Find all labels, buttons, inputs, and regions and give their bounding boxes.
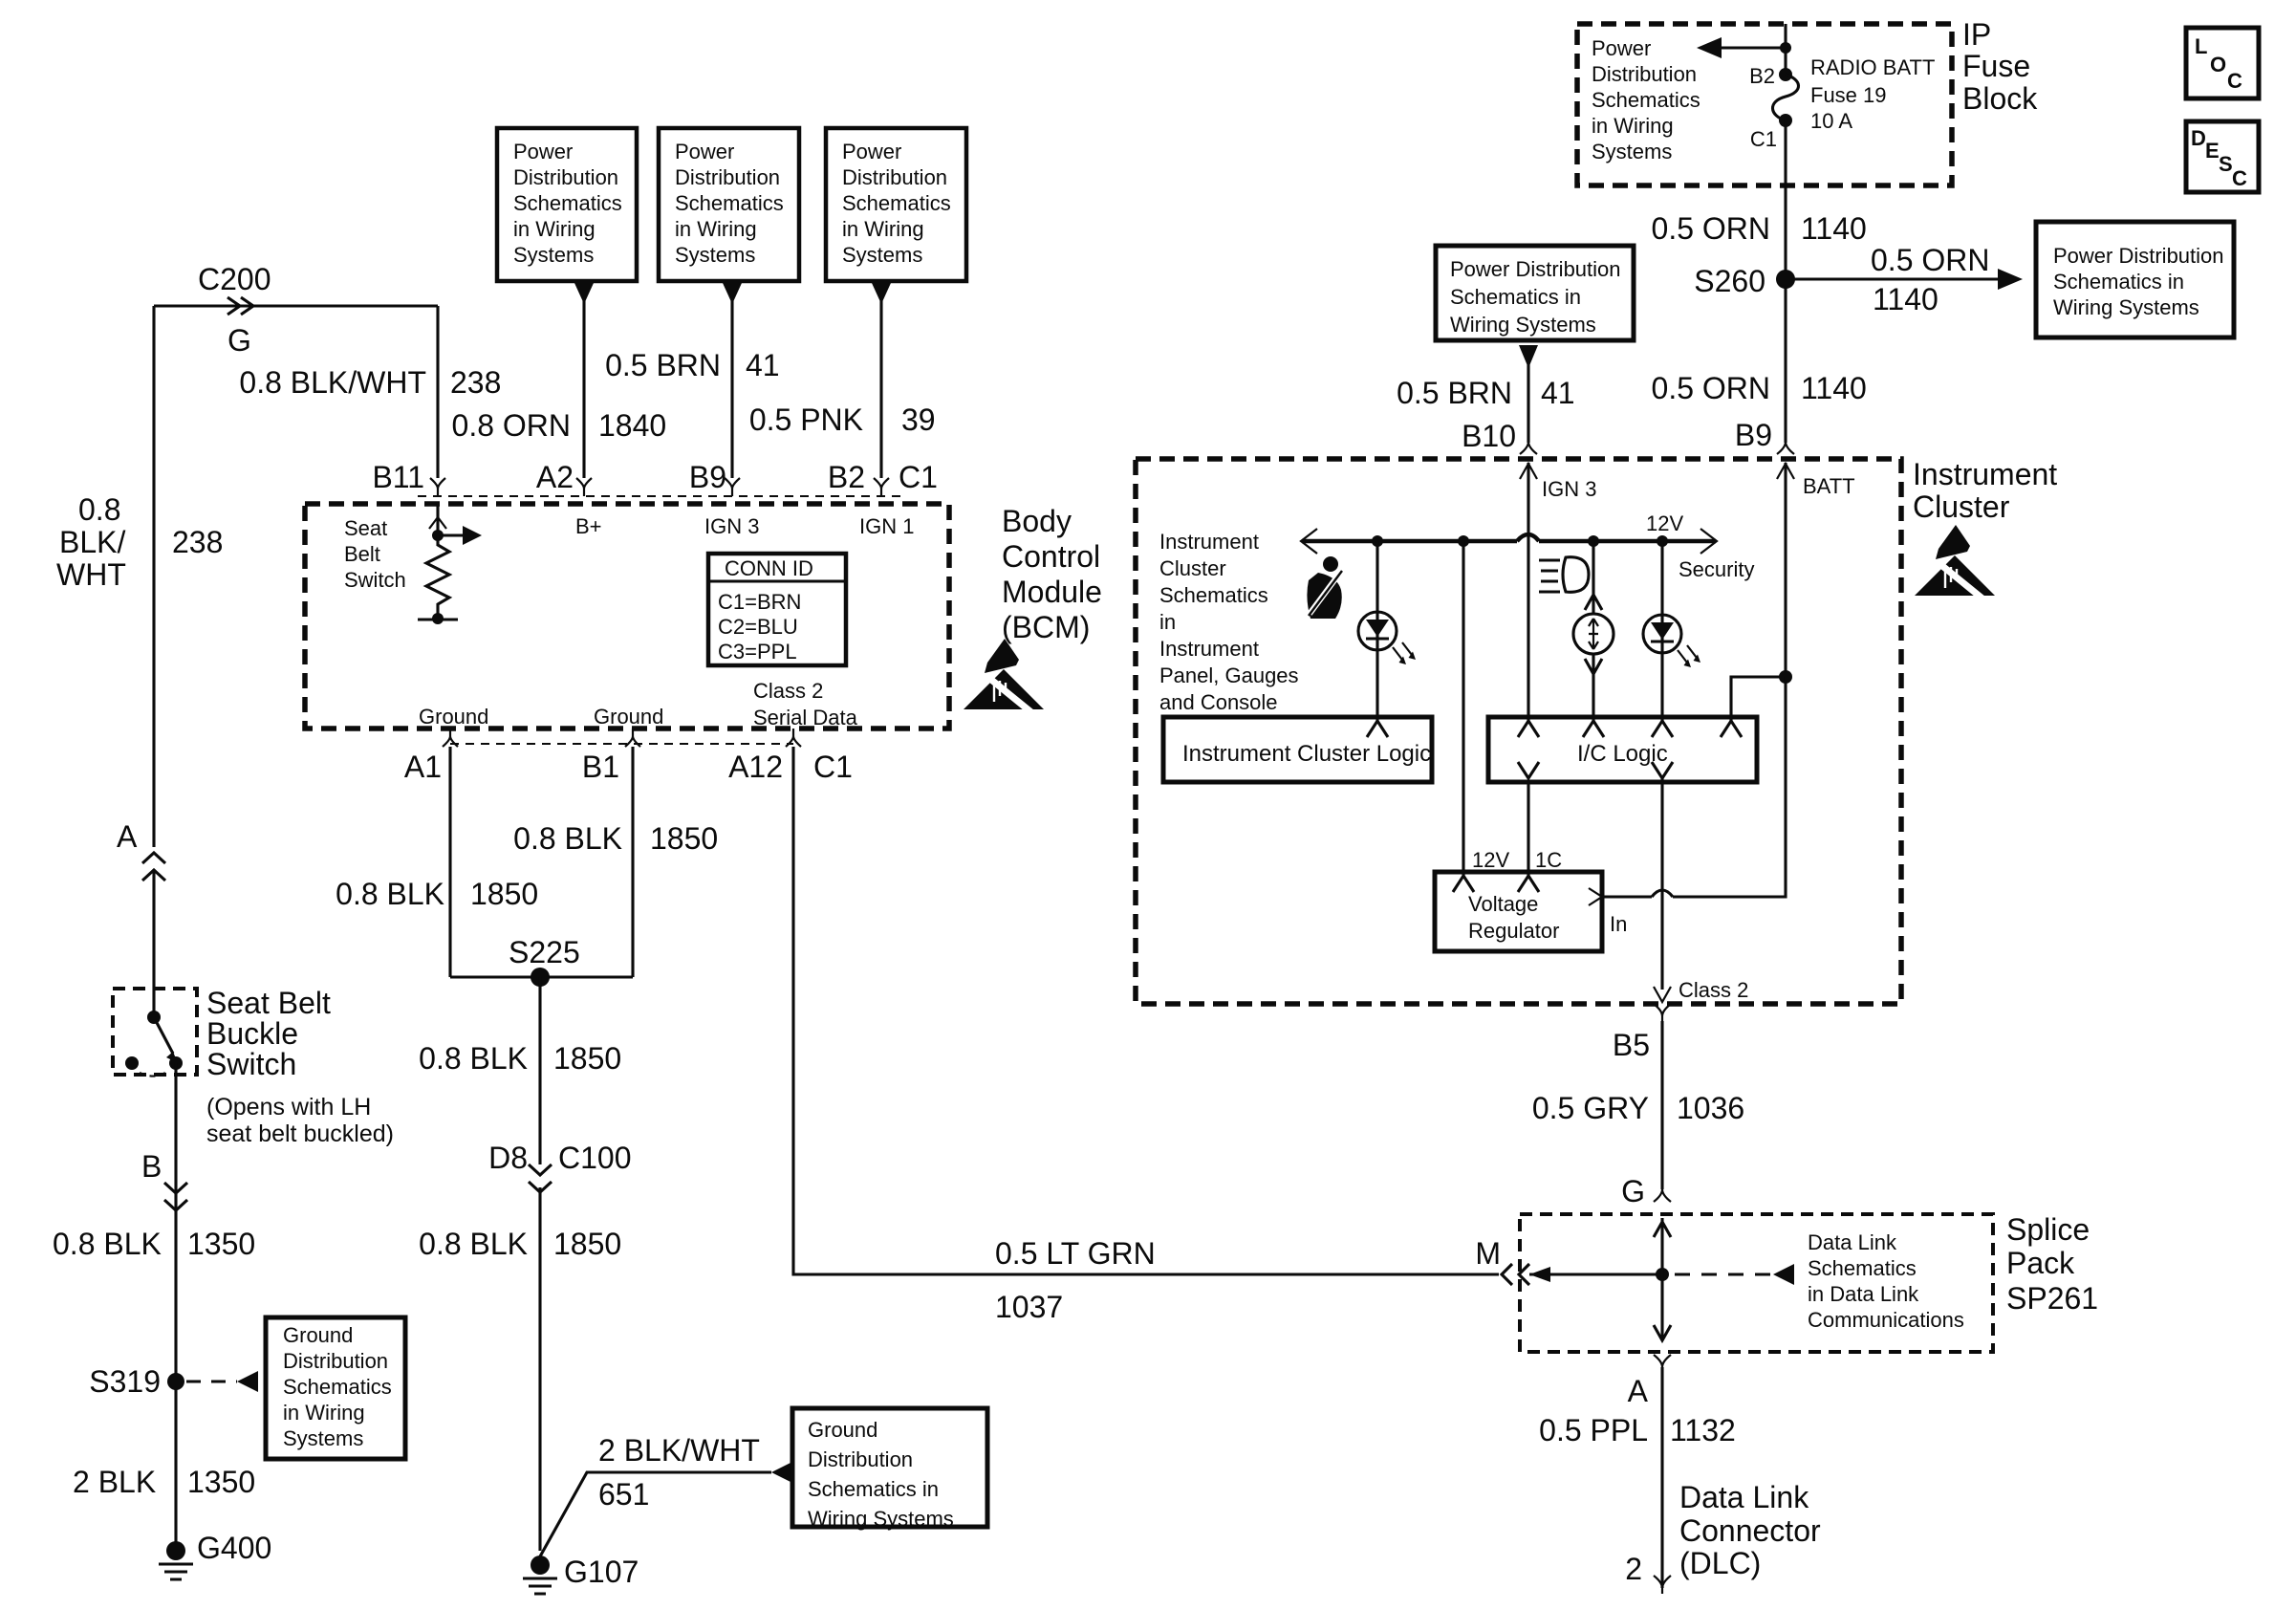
svg-text:A: A bbox=[117, 819, 138, 854]
svg-text:Distribution: Distribution bbox=[1592, 62, 1697, 86]
box power distribution schematics 3 bbox=[826, 128, 966, 281]
connector forks at BCM bottom bbox=[443, 729, 801, 747]
bus hop over IGN3 wire bbox=[1517, 534, 1539, 541]
wire I/C logic to voltage regulator 1C bbox=[1527, 782, 1529, 876]
svg-text:in Data Link: in Data Link bbox=[1808, 1282, 1919, 1306]
svg-text:C1: C1 bbox=[813, 750, 853, 784]
svg-text:Data Link: Data Link bbox=[1808, 1230, 1897, 1254]
switch arm bbox=[154, 1017, 173, 1054]
wire security LED branch bbox=[1660, 541, 1663, 721]
ESD symbol BCM bbox=[964, 639, 1044, 721]
svg-text:1037: 1037 bbox=[995, 1290, 1063, 1324]
svg-text:C2=BLU: C2=BLU bbox=[718, 615, 798, 639]
svg-text:0.8 BLK: 0.8 BLK bbox=[336, 877, 444, 911]
svg-text:I/C Logic: I/C Logic bbox=[1577, 741, 1668, 767]
svg-text:IP: IP bbox=[1962, 17, 1991, 52]
connector forks at BCM top bbox=[430, 478, 889, 496]
svg-text:Distribution: Distribution bbox=[513, 165, 618, 189]
arrow to data link reference bbox=[1773, 1264, 1794, 1285]
svg-text:G: G bbox=[1621, 1174, 1645, 1208]
wire IGN3 to I/C logic bbox=[1527, 541, 1529, 721]
svg-text:Fuse: Fuse bbox=[1962, 49, 2030, 83]
svg-text:in Wiring: in Wiring bbox=[513, 217, 596, 241]
forks into I/C logic bbox=[1518, 721, 1742, 737]
svg-text:Belt: Belt bbox=[344, 542, 380, 566]
wire B9 0.5 BRN 41 bbox=[730, 298, 733, 478]
svg-text:Switch: Switch bbox=[344, 568, 406, 592]
fork below instrument cluster bbox=[1654, 1004, 1671, 1021]
wire A1 ground leg bbox=[448, 747, 451, 977]
svg-text:Buckle: Buckle bbox=[206, 1016, 298, 1051]
wire dashed reference from S319 bbox=[186, 1380, 237, 1382]
svg-text:Switch: Switch bbox=[206, 1047, 296, 1081]
svg-text:Panel, Gauges: Panel, Gauges bbox=[1159, 664, 1299, 687]
svg-text:12V: 12V bbox=[1646, 511, 1683, 535]
svg-text:A12: A12 bbox=[728, 750, 783, 784]
wire 0.5 LT GRN 1037 serial data run bbox=[793, 747, 1499, 1274]
svg-text:0.8: 0.8 bbox=[78, 492, 120, 527]
switch pivot bbox=[147, 1011, 161, 1024]
splice pack dashed border bbox=[1520, 1214, 1993, 1352]
svg-text:B: B bbox=[141, 1149, 162, 1184]
svg-text:CONN ID: CONN ID bbox=[725, 556, 813, 580]
junction 12V rail to voltage regulator bbox=[1458, 535, 1469, 547]
wire S260 branch to power distribution bbox=[1786, 277, 1998, 280]
wire A to DLC bbox=[1660, 1367, 1663, 1588]
wire 238 down to B11 bbox=[436, 306, 439, 478]
svg-text:Ground: Ground bbox=[419, 705, 488, 729]
svg-text:0.5 LT GRN: 0.5 LT GRN bbox=[995, 1236, 1156, 1271]
svg-text:2 BLK/WHT: 2 BLK/WHT bbox=[598, 1433, 760, 1468]
svg-text:0.5 BRN: 0.5 BRN bbox=[1397, 376, 1512, 410]
svg-text:39: 39 bbox=[901, 402, 936, 437]
wire arrow to power distribution bbox=[1721, 46, 1786, 49]
svg-text:C1: C1 bbox=[899, 460, 938, 494]
svg-text:Control: Control bbox=[1002, 539, 1100, 574]
svg-text:Fuse 19: Fuse 19 bbox=[1810, 83, 1887, 107]
svg-text:G: G bbox=[227, 323, 251, 358]
splice S319 bbox=[167, 1373, 184, 1390]
svg-text:1350: 1350 bbox=[187, 1227, 255, 1261]
svg-text:Schematics: Schematics bbox=[1592, 88, 1700, 112]
svg-text:(BCM): (BCM) bbox=[1002, 610, 1090, 644]
box voltage regulator bbox=[1435, 872, 1602, 951]
svg-text:Class 2: Class 2 bbox=[753, 679, 823, 703]
svg-text:D8: D8 bbox=[488, 1141, 528, 1175]
svg-text:Schematics: Schematics bbox=[842, 191, 951, 215]
forks into voltage regulator bbox=[1453, 876, 1539, 892]
svg-text:Schematics: Schematics bbox=[675, 191, 784, 215]
svg-text:S260: S260 bbox=[1694, 264, 1765, 298]
svg-text:BLK/: BLK/ bbox=[59, 525, 125, 559]
arrow below box 2 bbox=[723, 283, 742, 304]
svg-text:1C: 1C bbox=[1535, 848, 1562, 872]
headlamp indicator icon bbox=[1539, 557, 1589, 593]
svg-text:C3=PPL: C3=PPL bbox=[718, 640, 797, 664]
svg-text:Ground: Ground bbox=[594, 705, 663, 729]
svg-text:Body: Body bbox=[1002, 504, 1072, 538]
svg-text:and Console: and Console bbox=[1159, 690, 1278, 714]
wire B2/C1 0.5 PNK 39 bbox=[879, 298, 882, 478]
svg-text:B9: B9 bbox=[689, 460, 726, 494]
svg-text:0.5 GRY: 0.5 GRY bbox=[1532, 1091, 1649, 1125]
svg-text:0.8 BLK: 0.8 BLK bbox=[513, 821, 622, 856]
svg-text:G107: G107 bbox=[564, 1555, 639, 1589]
box power distribution schematics (middle) bbox=[1436, 246, 1634, 340]
svg-text:1850: 1850 bbox=[650, 821, 718, 856]
svg-text:Communications: Communications bbox=[1808, 1308, 1964, 1332]
svg-text:in Wiring: in Wiring bbox=[1592, 114, 1674, 138]
wire fuse feed vertical bbox=[1784, 24, 1787, 75]
svg-text:Systems: Systems bbox=[675, 243, 755, 267]
box power distribution schematics 2 bbox=[659, 128, 799, 281]
svg-text:1850: 1850 bbox=[470, 877, 538, 911]
seat belt indicator icon bbox=[1307, 556, 1342, 619]
splice S260 bbox=[1776, 270, 1795, 289]
arrow below middle box bbox=[1519, 345, 1538, 368]
CONN ID box bbox=[708, 554, 846, 665]
svg-text:Instrument Cluster Logic: Instrument Cluster Logic bbox=[1182, 741, 1431, 767]
wire S225 tie bbox=[450, 975, 633, 978]
svg-text:IGN 3: IGN 3 bbox=[1542, 477, 1596, 501]
svg-text:IGN 3: IGN 3 bbox=[704, 514, 759, 538]
junction gauge branch bbox=[1588, 535, 1599, 547]
svg-text:Distribution: Distribution bbox=[842, 165, 947, 189]
svg-text:Power Distribution: Power Distribution bbox=[2053, 244, 2224, 268]
svg-text:0.5 ORN: 0.5 ORN bbox=[1652, 371, 1770, 405]
svg-text:12V: 12V bbox=[1472, 848, 1509, 872]
svg-text:238: 238 bbox=[450, 365, 501, 400]
wire S225 down bbox=[538, 977, 541, 1164]
svg-text:1140: 1140 bbox=[1801, 371, 1867, 405]
fork into instrument cluster logic bbox=[1367, 721, 1388, 737]
svg-text:1132: 1132 bbox=[1670, 1413, 1736, 1447]
wire C200 horizontal run bbox=[154, 304, 438, 307]
LED light arrows bbox=[1393, 642, 1412, 660]
connector C200 chevrons bbox=[227, 297, 253, 315]
wire gauge branch bbox=[1592, 541, 1594, 614]
svg-text:O: O bbox=[2210, 53, 2226, 76]
svg-text:seat belt buckled): seat belt buckled) bbox=[206, 1120, 394, 1147]
svg-text:A1: A1 bbox=[404, 750, 442, 784]
svg-text:L: L bbox=[2195, 34, 2207, 58]
svg-text:41: 41 bbox=[1541, 376, 1575, 410]
fork above splice pack bbox=[1654, 1189, 1671, 1202]
svg-text:B5: B5 bbox=[1613, 1028, 1650, 1062]
arrow to ground distribution reference 2 bbox=[771, 1462, 792, 1483]
svg-text:Systems: Systems bbox=[513, 243, 594, 267]
wire B1 ground leg bbox=[631, 747, 634, 977]
svg-text:Wiring Systems: Wiring Systems bbox=[2053, 295, 2199, 319]
ground G400 bbox=[166, 1541, 185, 1560]
svg-text:1840: 1840 bbox=[598, 408, 666, 443]
box power distribution schematics 1 bbox=[497, 128, 637, 281]
box ground distribution schematics (mid) bbox=[792, 1408, 987, 1527]
connector B chevrons bbox=[164, 1183, 187, 1210]
svg-text:0.5 ORN: 0.5 ORN bbox=[1652, 211, 1770, 246]
svg-text:B11: B11 bbox=[372, 460, 424, 494]
LOC box bbox=[2186, 28, 2259, 98]
svg-text:C1=BRN: C1=BRN bbox=[718, 590, 801, 614]
wire BATT entry bbox=[1784, 463, 1787, 677]
svg-text:B2: B2 bbox=[1749, 64, 1775, 88]
svg-text:Schematics: Schematics bbox=[513, 191, 622, 215]
wire fuse output down to S260 bbox=[1784, 119, 1787, 443]
wire IGN 3 entry bbox=[1527, 463, 1529, 541]
svg-text:A: A bbox=[1628, 1374, 1649, 1408]
svg-text:10 A: 10 A bbox=[1810, 109, 1852, 133]
svg-text:Pack: Pack bbox=[2006, 1246, 2075, 1280]
svg-text:Seat Belt: Seat Belt bbox=[206, 986, 331, 1020]
wire splice pack internal bbox=[1660, 1218, 1663, 1340]
arrow below box 3 bbox=[872, 283, 891, 304]
DESC box bbox=[2186, 121, 2259, 192]
svg-text:M: M bbox=[1475, 1236, 1501, 1271]
svg-text:Wiring Systems: Wiring Systems bbox=[1450, 313, 1596, 337]
svg-text:(DLC): (DLC) bbox=[1679, 1546, 1761, 1580]
svg-text:0.8 ORN: 0.8 ORN bbox=[452, 408, 571, 443]
svg-text:0.8 BLK/WHT: 0.8 BLK/WHT bbox=[239, 365, 426, 400]
svg-text:in Wiring: in Wiring bbox=[842, 217, 924, 241]
svg-text:Connector: Connector bbox=[1679, 1513, 1821, 1548]
svg-text:Distribution: Distribution bbox=[283, 1349, 388, 1373]
svg-text:1036: 1036 bbox=[1677, 1091, 1744, 1125]
seat belt buckle switch dashed box bbox=[113, 989, 197, 1075]
body control module dashed border bbox=[305, 504, 949, 729]
ground G107 bbox=[531, 1556, 550, 1575]
svg-text:Schematics: Schematics bbox=[1159, 583, 1268, 607]
svg-text:C: C bbox=[2227, 69, 2242, 93]
svg-text:238: 238 bbox=[172, 525, 223, 559]
connector C100 chevrons bbox=[529, 1164, 552, 1192]
svg-text:41: 41 bbox=[746, 348, 780, 382]
svg-text:Splice: Splice bbox=[2006, 1212, 2090, 1247]
svg-text:0.5 BRN: 0.5 BRN bbox=[605, 348, 721, 382]
svg-text:Schematics in: Schematics in bbox=[808, 1477, 939, 1501]
switch contacts bbox=[125, 1056, 139, 1070]
switch dashed arc bbox=[140, 1071, 168, 1077]
svg-text:Schematics: Schematics bbox=[283, 1375, 392, 1399]
wire switch to S319 bbox=[174, 1063, 177, 1545]
svg-text:Seat: Seat bbox=[344, 516, 387, 540]
svg-text:Power: Power bbox=[513, 140, 573, 163]
svg-text:Schematics in: Schematics in bbox=[1450, 285, 1581, 309]
splice S225 bbox=[531, 968, 550, 987]
svg-text:Power: Power bbox=[1592, 36, 1651, 60]
svg-text:in Wiring: in Wiring bbox=[675, 217, 757, 241]
svg-text:SP261: SP261 bbox=[2006, 1281, 2098, 1316]
svg-text:1850: 1850 bbox=[553, 1041, 621, 1076]
instrument cluster dashed border bbox=[1136, 459, 1901, 1004]
dashed connector line BCM bottom bbox=[450, 743, 793, 745]
box I/C logic bbox=[1488, 717, 1757, 782]
svg-text:Distribution: Distribution bbox=[808, 1447, 913, 1471]
svg-text:Security: Security bbox=[1679, 557, 1754, 581]
fork DLC pin 2 bbox=[1654, 1576, 1671, 1594]
svg-text:Serial Data: Serial Data bbox=[753, 706, 858, 729]
LED seat belt indicator bbox=[1358, 612, 1397, 650]
wire 0.5 BRN 41 to B10 bbox=[1527, 361, 1529, 443]
svg-text:1850: 1850 bbox=[553, 1227, 621, 1261]
wire C100 to G107 bbox=[538, 1187, 541, 1551]
wire 12V to voltage regulator bbox=[1462, 541, 1464, 876]
seat belt switch resistor bbox=[436, 504, 439, 532]
svg-text:Systems: Systems bbox=[1592, 140, 1672, 163]
svg-text:2 BLK: 2 BLK bbox=[73, 1465, 156, 1499]
connector forks above instrument cluster bbox=[1520, 442, 1794, 454]
svg-text:RADIO BATT: RADIO BATT bbox=[1810, 55, 1935, 79]
svg-text:Power Distribution: Power Distribution bbox=[1450, 257, 1621, 281]
svg-text:Wiring Systems: Wiring Systems bbox=[808, 1507, 954, 1531]
svg-text:1350: 1350 bbox=[187, 1465, 255, 1499]
svg-text:Cluster: Cluster bbox=[1159, 556, 1226, 580]
LED light arrows bbox=[1678, 645, 1697, 663]
svg-text:Voltage: Voltage bbox=[1468, 892, 1538, 916]
wire 0.8 BLK/WHT 238 left vertical bbox=[152, 306, 155, 847]
svg-text:0.8 BLK: 0.8 BLK bbox=[53, 1227, 162, 1261]
svg-text:Ground: Ground bbox=[283, 1323, 353, 1347]
svg-text:Class 2: Class 2 bbox=[1679, 978, 1748, 1002]
svg-text:0.5 PNK: 0.5 PNK bbox=[749, 402, 863, 437]
svg-text:651: 651 bbox=[598, 1477, 649, 1512]
svg-text:In: In bbox=[1610, 912, 1627, 936]
svg-text:B+: B+ bbox=[575, 514, 602, 538]
svg-text:1140: 1140 bbox=[1873, 282, 1939, 316]
svg-text:C1: C1 bbox=[1750, 127, 1777, 151]
svg-text:1140: 1140 bbox=[1801, 211, 1867, 246]
svg-text:E: E bbox=[2205, 139, 2220, 163]
dashed reference line in splice pack bbox=[1675, 1273, 1773, 1275]
svg-text:(Opens with LH: (Opens with LH bbox=[206, 1094, 371, 1120]
svg-text:Systems: Systems bbox=[842, 243, 922, 267]
wire A2 0.8 ORN 1840 bbox=[582, 298, 585, 478]
forks out of I/C logic bbox=[1518, 762, 1673, 778]
resistor zigzag bbox=[426, 535, 449, 619]
svg-text:0.8 BLK: 0.8 BLK bbox=[419, 1227, 528, 1261]
bus 12V rail bbox=[1302, 539, 1716, 544]
svg-text:in Wiring: in Wiring bbox=[283, 1401, 365, 1425]
svg-text:0.5 PPL: 0.5 PPL bbox=[1539, 1413, 1648, 1447]
svg-text:G400: G400 bbox=[197, 1531, 271, 1565]
fuse RADIO BATT Fuse 19 10 A bbox=[1779, 68, 1792, 81]
junction security LED bbox=[1657, 535, 1668, 547]
svg-text:WHT: WHT bbox=[56, 557, 126, 592]
hop voltage regulator line over class 2 bbox=[1652, 890, 1673, 897]
svg-text:Instrument: Instrument bbox=[1159, 637, 1259, 661]
svg-text:BATT: BATT bbox=[1803, 474, 1855, 498]
wire 651 branch diagonal bbox=[540, 1472, 771, 1556]
svg-text:Instrument: Instrument bbox=[1913, 457, 2057, 491]
svg-text:C: C bbox=[2232, 166, 2247, 190]
svg-text:Systems: Systems bbox=[283, 1426, 363, 1450]
wire gauge to I/C logic bbox=[1592, 654, 1594, 721]
wire seat belt LED branch bbox=[1375, 541, 1378, 721]
arrow to ground distribution reference bbox=[237, 1371, 258, 1392]
arrow class 2 exit bbox=[1654, 987, 1671, 1002]
svg-text:Block: Block bbox=[1962, 81, 2038, 116]
svg-text:Data Link: Data Link bbox=[1679, 1480, 1809, 1514]
wire to seat belt buckle switch bbox=[152, 872, 155, 1015]
svg-text:Power: Power bbox=[842, 140, 901, 163]
gauge symbol circle bbox=[1573, 614, 1614, 654]
svg-text:S225: S225 bbox=[509, 935, 580, 969]
svg-text:Distribution: Distribution bbox=[675, 165, 780, 189]
svg-text:Cluster: Cluster bbox=[1913, 490, 2010, 524]
fork below splice pack bbox=[1654, 1355, 1671, 1367]
svg-text:B2: B2 bbox=[828, 460, 865, 494]
LED security indicator bbox=[1643, 615, 1681, 653]
junction BATT to I/C logic bbox=[1779, 670, 1792, 684]
svg-text:Power: Power bbox=[675, 140, 734, 163]
box power distribution schematics (right) bbox=[2036, 222, 2234, 337]
svg-text:S319: S319 bbox=[89, 1364, 161, 1399]
svg-text:0.8 BLK: 0.8 BLK bbox=[419, 1041, 528, 1076]
svg-text:IGN 1: IGN 1 bbox=[859, 514, 914, 538]
svg-text:B9: B9 bbox=[1735, 418, 1772, 452]
svg-text:Regulator: Regulator bbox=[1468, 919, 1559, 943]
arrow below box 1 bbox=[574, 283, 594, 304]
svg-text:Ground: Ground bbox=[808, 1418, 877, 1442]
svg-text:B1: B1 bbox=[582, 750, 619, 784]
ESD symbol instrument cluster bbox=[1915, 525, 1995, 607]
svg-text:C100: C100 bbox=[558, 1141, 632, 1175]
svg-text:Module: Module bbox=[1002, 575, 1102, 609]
wire class 2 leg bbox=[1660, 778, 1663, 990]
svg-text:D: D bbox=[2191, 126, 2206, 150]
box instrument cluster logic bbox=[1163, 717, 1432, 782]
svg-text:2: 2 bbox=[1625, 1552, 1642, 1586]
svg-text:in: in bbox=[1159, 610, 1176, 634]
svg-text:0.5 ORN: 0.5 ORN bbox=[1871, 243, 1989, 277]
svg-text:Schematics: Schematics bbox=[1808, 1256, 1917, 1280]
junction SP261 bbox=[1656, 1268, 1669, 1281]
wire M to SP261 center bbox=[1529, 1273, 1662, 1275]
voltage regulator In pin bbox=[1589, 888, 1602, 905]
svg-text:C200: C200 bbox=[198, 262, 271, 296]
dashed connector line BCM top bbox=[418, 495, 903, 497]
wire BATT jog into I/C logic bbox=[1731, 677, 1786, 721]
junction seat belt LED bbox=[1372, 535, 1383, 547]
svg-text:Instrument: Instrument bbox=[1159, 530, 1259, 554]
box ground distribution schematics (left) bbox=[266, 1317, 405, 1459]
svg-text:B10: B10 bbox=[1462, 419, 1516, 453]
svg-text:Schematics in: Schematics in bbox=[2053, 270, 2184, 294]
IP fuse block dashed box bbox=[1577, 24, 1952, 185]
wire BATT down to voltage regulator line bbox=[1673, 677, 1786, 897]
svg-text:A2: A2 bbox=[536, 460, 574, 494]
wire B5 to splice pack bbox=[1660, 1021, 1663, 1189]
svg-text:S: S bbox=[2219, 152, 2233, 176]
